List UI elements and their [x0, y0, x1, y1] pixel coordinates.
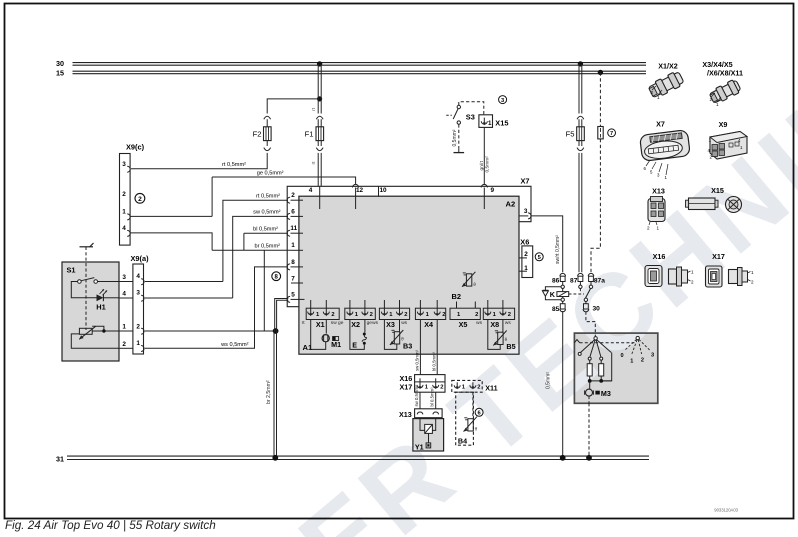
rotary switch S1	[62, 262, 119, 361]
svg-text:rt: rt	[311, 161, 317, 165]
wires X17 down to X13	[414, 385, 436, 410]
X7 right pin 3	[519, 208, 531, 219]
svg-text:8: 8	[291, 259, 295, 266]
M3 selector deck 2	[621, 336, 655, 364]
svg-text:1: 1	[630, 358, 633, 364]
relay K coil	[550, 282, 569, 304]
svg-text:X3: X3	[386, 320, 395, 329]
svg-text:1: 1	[136, 340, 140, 347]
illustration X16	[645, 252, 694, 287]
wire X9(c).4 jog	[130, 233, 212, 250]
wire rt 0,5mm2 to X7 pin 2	[223, 194, 288, 282]
svg-text:S3: S3	[466, 112, 475, 121]
svg-text:sw/rt 0,5mm²: sw/rt 0,5mm²	[555, 235, 561, 264]
connector X4	[415, 300, 445, 329]
relay freewheel diode	[542, 287, 561, 300]
svg-text:sw: sw	[331, 321, 337, 326]
illustration X9	[708, 120, 748, 160]
svg-text:2: 2	[524, 251, 528, 258]
bus 15	[56, 68, 646, 77]
svg-text:bl 0,5mm²: bl 0,5mm²	[430, 387, 435, 407]
relay terminal 87a	[588, 273, 605, 284]
svg-text:87: 87	[570, 277, 578, 284]
svg-text:X5: X5	[459, 320, 468, 329]
illustration X1/X2	[647, 62, 684, 101]
svg-text:X9(c): X9(c)	[126, 143, 145, 152]
svg-text:M3: M3	[601, 389, 611, 398]
svg-text:6: 6	[291, 208, 295, 215]
relay terminal 87	[570, 273, 583, 284]
svg-text:B4: B4	[458, 437, 467, 446]
svg-text:15: 15	[56, 68, 64, 77]
svg-text:1: 1	[122, 208, 126, 215]
svg-text:7: 7	[610, 131, 613, 137]
connector X13	[399, 409, 442, 419]
relay terminal 86	[552, 273, 566, 284]
connector X1	[302, 300, 340, 329]
svg-text:X7: X7	[520, 176, 529, 185]
blower M3 box	[574, 333, 657, 403]
svg-text:1: 1	[716, 102, 719, 107]
wire F2 branch	[264, 99, 319, 127]
svg-text:X7: X7	[656, 119, 665, 128]
illustration X15	[686, 186, 742, 213]
blower motor M3	[585, 381, 611, 403]
svg-text:0: 0	[621, 353, 624, 359]
svg-text:ws: ws	[505, 321, 511, 326]
svg-text:F2: F2	[253, 130, 262, 139]
svg-text:B3: B3	[403, 342, 412, 351]
wire F5 feed from bus 30 (double)	[577, 61, 584, 127]
svg-text:br 2,5mm²: br 2,5mm²	[266, 380, 272, 404]
svg-text:/X6/X8/X11: /X6/X8/X11	[707, 69, 743, 78]
wire to X7 pin 5 (double)	[275, 299, 289, 332]
wire A2 pin3 to relay 86, sw/rt 0,5mm2	[531, 216, 563, 272]
svg-text:3: 3	[524, 208, 528, 215]
svg-text:ws: ws	[372, 321, 378, 326]
X7 left pins 2 6 11 1 8 7 5	[287, 192, 304, 302]
wire X9(c).1 to ge riser	[130, 177, 212, 216]
svg-text:2: 2	[404, 312, 407, 318]
svg-text:B5: B5	[506, 342, 515, 351]
svg-text:F5: F5	[566, 129, 575, 138]
svg-text:30: 30	[56, 59, 64, 68]
svg-text:sw 0,5mm²: sw 0,5mm²	[415, 349, 420, 371]
svg-text:3: 3	[122, 161, 126, 168]
wire br 2,5mm2 to bus 31 (double)	[266, 331, 278, 461]
connector X6	[519, 237, 533, 277]
svg-text:5: 5	[291, 291, 295, 298]
svg-text:X8: X8	[490, 320, 499, 329]
svg-text:X15: X15	[711, 186, 724, 195]
S1 pin stubs and labels	[119, 274, 133, 348]
svg-text:3: 3	[122, 274, 126, 281]
svg-text:Y1: Y1	[415, 442, 424, 451]
svg-text:1: 1	[488, 120, 492, 127]
svg-text:rt 0,5mm²: rt 0,5mm²	[222, 162, 246, 168]
svg-text:X2: X2	[351, 320, 360, 329]
component 7 dashed feed from bus 15	[591, 70, 615, 273]
svg-text:bl 0,5mm²: bl 0,5mm²	[253, 227, 278, 233]
M3 selector deck 1	[574, 337, 634, 381]
svg-text:10: 10	[379, 187, 387, 194]
wire F1 to X7 pin 4	[311, 141, 323, 187]
svg-text:6: 6	[644, 166, 647, 171]
svg-text:4: 4	[309, 187, 313, 194]
svg-text:X6: X6	[520, 237, 529, 246]
dashed wire 30 to M3	[586, 312, 595, 337]
svg-text:2: 2	[641, 357, 644, 363]
sensor B3	[384, 320, 412, 351]
relay terminal 30	[583, 304, 600, 313]
potentiometer in S1	[71, 326, 119, 348]
svg-text:X13: X13	[652, 186, 665, 195]
svg-text:X11: X11	[485, 384, 497, 393]
svg-text:S1: S1	[67, 266, 76, 275]
svg-text:0,5mm²: 0,5mm²	[546, 372, 552, 389]
connector X9(a)	[130, 254, 149, 354]
control unit A1 box	[299, 196, 519, 354]
fuse F1	[305, 127, 324, 141]
svg-text:rt 0,5mm²: rt 0,5mm²	[256, 194, 280, 200]
switch S3	[446, 102, 484, 125]
svg-text:2: 2	[751, 280, 754, 285]
svg-text:M1: M1	[331, 340, 341, 349]
svg-text:2: 2	[291, 192, 295, 199]
svg-text:1: 1	[657, 95, 660, 100]
wire sw 0,5mm2 to X7 pin 6	[233, 210, 288, 298]
svg-text:X16: X16	[653, 252, 666, 261]
svg-text:30: 30	[593, 305, 601, 312]
svg-text:87a: 87a	[594, 277, 605, 284]
svg-text:1: 1	[751, 270, 754, 275]
svg-text:0,5mm²: 0,5mm²	[485, 156, 491, 173]
bus 30	[56, 59, 646, 68]
connector X16/X17	[400, 374, 445, 392]
wire X9(a).3 to sw riser	[145, 297, 233, 299]
wire ge 0,5mm2 to X7 pin 12	[212, 171, 356, 185]
glow plug E	[350, 320, 367, 350]
connector X2	[338, 300, 375, 329]
svg-text:1: 1	[122, 324, 126, 331]
svg-text:3: 3	[657, 172, 660, 177]
temperature sensor B2	[452, 272, 477, 301]
wire X9(a).4 to rt riser	[145, 281, 223, 283]
illustration X3/X4/X5/X6/X8/X11	[702, 60, 743, 107]
svg-text:ws: ws	[401, 321, 407, 326]
fuse F5	[566, 127, 585, 141]
svg-text:B2: B2	[452, 292, 461, 301]
svg-text:K: K	[550, 290, 556, 299]
svg-text:2: 2	[475, 312, 478, 318]
svg-text:rt: rt	[311, 107, 317, 111]
connector X9(c)	[120, 143, 145, 246]
svg-text:br 0,5mm²: br 0,5mm²	[255, 244, 281, 250]
svg-text:X15: X15	[495, 119, 508, 128]
illustration X13	[647, 186, 665, 230]
fuse F2	[253, 127, 271, 141]
svg-text:E: E	[352, 340, 357, 349]
svg-text:2: 2	[440, 384, 443, 390]
svg-text:2: 2	[647, 226, 650, 231]
svg-text:9033120A03: 9033120A03	[714, 508, 738, 513]
wire X15 to X7 pin 9, gn/rt	[479, 127, 490, 185]
svg-text:4: 4	[122, 291, 126, 298]
svg-text:85: 85	[552, 306, 560, 313]
svg-text:11: 11	[290, 225, 297, 232]
svg-text:X1: X1	[316, 320, 325, 329]
connector X5	[450, 302, 480, 330]
wire X9(a).2 to ground node	[145, 330, 276, 332]
connector X8	[476, 300, 514, 329]
svg-text:1: 1	[691, 270, 694, 275]
svg-text:gn/rt: gn/rt	[479, 160, 485, 170]
svg-text:4: 4	[136, 273, 140, 280]
connector X7 frame	[287, 176, 531, 306]
dosing pump Y1	[413, 418, 444, 452]
M3 resistors	[587, 360, 612, 383]
circled 6	[475, 408, 483, 416]
svg-text:2: 2	[691, 280, 694, 285]
svg-text:5: 5	[650, 169, 653, 174]
wire br 0,5mm2 to X7 pin 1	[212, 233, 291, 331]
svg-text:F1: F1	[305, 130, 314, 139]
svg-text:2: 2	[138, 196, 142, 203]
X7 top pins 4 12 10 9	[309, 184, 495, 209]
svg-text:X17: X17	[712, 252, 725, 261]
svg-text:31: 31	[56, 454, 64, 463]
svg-text:X13: X13	[399, 410, 412, 419]
sensor B5	[488, 320, 516, 352]
svg-text:A2: A2	[506, 199, 516, 208]
wire bl 0,5mm2 to X7 pin 11	[244, 227, 288, 234]
wire 85 to bus 31	[546, 311, 566, 461]
svg-text:2: 2	[331, 312, 334, 318]
svg-text:X9(a): X9(a)	[130, 254, 149, 263]
svg-text:3: 3	[136, 289, 140, 296]
wire F2 to X9(c) pin 3, rt 0,5mm2	[131, 141, 271, 169]
box background fills	[62, 196, 658, 451]
svg-text:sw 0,5mm²: sw 0,5mm²	[414, 385, 419, 407]
svg-text:12: 12	[356, 187, 364, 194]
wires X4 down to X16/X17	[415, 320, 438, 375]
svg-text:A1: A1	[303, 343, 313, 352]
circled 2	[135, 193, 145, 203]
illustration X17	[706, 252, 755, 287]
watermark	[277, 52, 798, 537]
svg-text:2: 2	[122, 341, 126, 348]
svg-text:9: 9	[491, 187, 495, 194]
bus 31	[56, 454, 649, 463]
svg-text:X17: X17	[400, 382, 413, 391]
svg-text:ge 0,5mm²: ge 0,5mm²	[257, 171, 284, 177]
svg-text:2: 2	[508, 312, 511, 318]
connector X11 (dashed)	[452, 380, 498, 392]
circled 5	[535, 253, 543, 261]
connector X15	[479, 115, 509, 128]
svg-text:sw 0,5mm²: sw 0,5mm²	[253, 210, 280, 216]
S1 switch contact	[71, 278, 119, 298]
caption	[5, 508, 739, 533]
svg-text:2: 2	[122, 191, 126, 198]
wire F5 to relay 87 (double)	[577, 141, 584, 273]
svg-text:ws: ws	[476, 321, 482, 326]
ground node junction	[273, 328, 279, 334]
svg-text:2: 2	[477, 384, 480, 390]
svg-text:3: 3	[651, 352, 654, 358]
S1 control shaft	[80, 243, 94, 330]
svg-text:2: 2	[136, 324, 140, 331]
svg-text:bl 0,5mm²: bl 0,5mm²	[431, 351, 436, 371]
svg-text:X9: X9	[719, 120, 728, 129]
svg-text:86: 86	[552, 277, 560, 284]
svg-text:ge: ge	[338, 321, 344, 326]
svg-text:4: 4	[122, 225, 126, 232]
relay contact blade	[569, 282, 593, 304]
wire ws 0,5mm2 to X7 pin 8	[145, 267, 288, 348]
circled 3	[499, 96, 507, 104]
svg-text:2: 2	[710, 97, 713, 102]
svg-text:1: 1	[657, 226, 660, 231]
svg-text:2: 2	[370, 312, 373, 318]
motor M1	[311, 320, 341, 350]
circled 8	[272, 272, 281, 281]
wire F1 feed from bus 30 (double line)	[311, 61, 323, 127]
svg-text:X4: X4	[424, 320, 433, 329]
svg-text:X1/X2: X1/X2	[658, 62, 678, 71]
svg-text:ws 0,5mm²: ws 0,5mm²	[220, 342, 248, 348]
svg-text:Fig. 24 Air Top Evo 40 | 55 Ro: Fig. 24 Air Top Evo 40 | 55 Rotary switc…	[5, 519, 216, 532]
LED H1	[96, 289, 119, 311]
ground below S3	[452, 124, 464, 152]
connector X3	[372, 300, 409, 329]
svg-text:1: 1	[665, 175, 668, 180]
dashed wire M3 to bus 31	[586, 403, 592, 460]
svg-text:2: 2	[442, 312, 445, 318]
svg-text:7: 7	[291, 275, 295, 282]
svg-text:1: 1	[291, 242, 295, 249]
svg-text:H1: H1	[96, 303, 105, 312]
illustration X7	[640, 119, 691, 180]
sensor B4 (dashed box)	[456, 392, 478, 445]
relay terminal 85	[552, 304, 566, 313]
svg-text:0,5mm²: 0,5mm²	[452, 129, 458, 146]
svg-text:2: 2	[651, 90, 654, 95]
